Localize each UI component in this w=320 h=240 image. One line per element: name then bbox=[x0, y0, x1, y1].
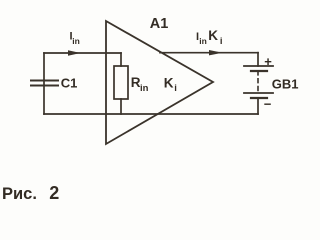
svg-text:2: 2 bbox=[49, 183, 59, 203]
arrow IinKi bbox=[209, 50, 223, 55]
wire input top bbox=[44, 52, 121, 54]
battery GB1 plate long 2 bbox=[244, 92, 273, 94]
svg-text:K: K bbox=[164, 75, 174, 90]
svg-text:+: + bbox=[264, 54, 272, 69]
op-amp A1 bbox=[106, 21, 213, 144]
wire battery bottom bbox=[257, 98, 259, 114]
svg-text:A1: A1 bbox=[150, 16, 169, 32]
wire battery top bbox=[257, 53, 259, 66]
svg-text:Рис.: Рис. bbox=[2, 185, 37, 203]
resistor Rin stub bottom bbox=[120, 99, 122, 114]
resistor Rin body bbox=[114, 66, 128, 99]
wire output bbox=[160, 52, 258, 54]
battery GB1 plate short 1 bbox=[251, 70, 267, 72]
wire left vertical bbox=[43, 53, 45, 114]
battery GB1 plate long 1 bbox=[244, 65, 273, 67]
svg-text:−: − bbox=[264, 96, 272, 111]
svg-text:C1: C1 bbox=[61, 76, 78, 91]
resistor Rin stub top bbox=[120, 53, 122, 66]
arrow Iin bbox=[68, 50, 81, 55]
svg-text:K: K bbox=[208, 28, 218, 43]
svg-text:in: in bbox=[199, 36, 207, 46]
svg-text:i: i bbox=[220, 36, 223, 47]
wire bottom bbox=[44, 113, 258, 115]
battery dashed link bbox=[257, 71, 259, 93]
svg-text:in: in bbox=[72, 36, 80, 46]
capacitor C1 bbox=[31, 81, 58, 86]
svg-text:i: i bbox=[174, 83, 177, 94]
svg-text:in: in bbox=[140, 83, 149, 94]
svg-text:GB1: GB1 bbox=[272, 77, 299, 92]
battery GB1 plate short 2 bbox=[251, 97, 267, 99]
